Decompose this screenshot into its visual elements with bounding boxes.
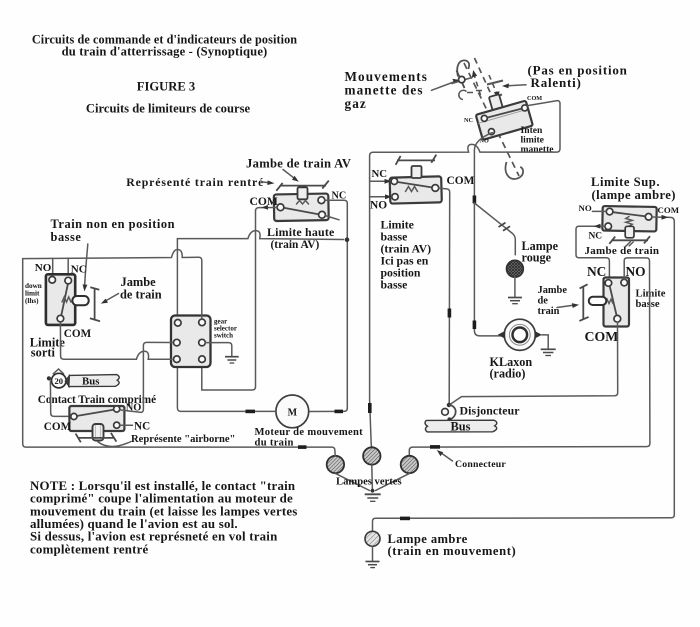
wire: S2 COM right then down to circuit breaker (439, 188, 450, 403)
wire: horizontal rail y=238.5 from gear selector to node A with hop over COM drop (177, 231, 343, 240)
connector dash on NO drop wire (upper) (473, 196, 477, 204)
S6 roller (72, 296, 88, 305)
wire: amber lamp to ground (372, 546, 374, 560)
svg-text:rouge: rouge (522, 251, 552, 265)
wire: S4 COM down then left to circuit breaker (450, 322, 617, 404)
wire: klaxon right to ground (542, 335, 548, 348)
label: KLaxon (radio) (490, 355, 533, 381)
S5 actuator bar (276, 181, 329, 191)
svg-text:Représenté train rentré: Représenté train rentré (126, 175, 264, 189)
gear selector switch SW1 (171, 316, 211, 368)
svg-text:NO: NO (579, 203, 592, 213)
svg-text:Représente "airborne": Représente "airborne" (131, 434, 235, 445)
label: Limite basse (S4) (636, 288, 666, 310)
S4 jamb bar (jambe de train) (579, 284, 588, 321)
svg-text:Lampes vertes: Lampes vertes (336, 477, 402, 488)
wire: S5 NC right then down to junction node A (309, 200, 347, 411)
svg-text:Bus: Bus (451, 420, 471, 434)
svg-text:Ralenti): Ralenti) (531, 75, 582, 90)
svg-text:sorti: sorti (31, 346, 56, 360)
label: Limite sorti (30, 335, 66, 359)
svg-text:Limite haute: Limite haute (267, 225, 334, 239)
switch S6: Limite sorti (down limit switch) (46, 274, 75, 325)
svg-text:complètement rentré: complètement rentré (30, 542, 149, 556)
S6 spring (62, 297, 71, 302)
label: Mouvements manette des gaz (345, 69, 429, 111)
leader arrow: jambe de train to bar (S6) (101, 294, 119, 304)
switch S7: Contact train comprime (69, 406, 124, 431)
svg-text:(lampe ambre): (lampe ambre) (592, 188, 676, 202)
connector dash on bottom rail (298, 445, 307, 449)
svg-text:COM: COM (64, 328, 92, 340)
wire: S3 NC left, down, right, down to S4 NC (U link) (576, 224, 609, 280)
svg-text:COM: COM (250, 195, 278, 208)
svg-text:NC: NC (71, 264, 87, 276)
wire: throttle NO terminal down (to red lamp / klaxon branch) (474, 133, 502, 336)
node: green lamp ground junction (371, 489, 375, 493)
wire: NO label lead to S3 NO (593, 210, 607, 212)
S3 spring (626, 217, 632, 227)
throttle lever arrowheads (472, 70, 477, 78)
wire: S3 COM right with arrow then down the far right side to amber lamp feed (373, 215, 675, 531)
svg-text:(lhs): (lhs) (25, 297, 39, 305)
svg-text:Circuits de limiteurs de cours: Circuits de limiteurs de course (86, 102, 251, 116)
wire: motor left to gear selector bottom-left (177, 368, 276, 412)
label: Limite basse (train AV) Ici pas en position basse (381, 218, 432, 292)
svg-text:basse: basse (381, 278, 408, 292)
svg-text:20: 20 (55, 376, 64, 386)
wire: S6 COM down then right to gear selector row3 with hop (60, 322, 172, 359)
wire: node x=369.6 stub to S2 NC with arrow (370, 179, 392, 184)
svg-text:NC: NC (134, 420, 150, 432)
lamp DS3: left green lamp (327, 456, 344, 473)
svg-text:Jambe: Jambe (538, 285, 568, 296)
svg-text:COM: COM (447, 175, 475, 187)
svg-text:NC: NC (589, 232, 603, 242)
connector dash on S2 COM drop (448, 309, 452, 318)
leader arrow from Ralenti label (502, 83, 526, 88)
switch S4: Limite basse lower-right microswitch (604, 278, 630, 327)
svg-text:Disjoncteur: Disjoncteur (460, 404, 520, 418)
fuse F1: 20A breaker bubble (47, 369, 66, 388)
S4 roller (589, 297, 607, 305)
svg-text:manette: manette (521, 144, 555, 155)
wire: node x=369.6 stub to S2 NO with arrow (370, 194, 392, 199)
svg-text:gaz: gaz (345, 96, 367, 111)
ground: red lamp (508, 298, 522, 304)
svg-text:du train d'atterrissage - (Syn: du train d'atterrissage - (Synoptique) (62, 45, 268, 59)
svg-text:NC: NC (464, 117, 473, 124)
wire: S5 COM left then down to y=390 and right to gear selector drop (202, 205, 277, 390)
svg-text:Jambe de train: Jambe de train (585, 245, 660, 257)
svg-text:Jambe de train AV: Jambe de train AV (246, 157, 351, 171)
wire: fuse node down to S7 COM (50, 381, 70, 416)
svg-text:COM: COM (527, 95, 542, 102)
S3 plunger (625, 226, 634, 238)
switch S2: Limite basse (train AV) (390, 176, 442, 203)
svg-text:Connecteur: Connecteur (455, 459, 506, 470)
svg-text:de: de (538, 296, 549, 307)
label: Moteur de mouvement du train (255, 427, 364, 448)
ground: amber lamp (366, 562, 380, 568)
ground: klaxon (541, 349, 556, 355)
motor M1: Moteur de mouvement du train (276, 395, 309, 428)
S7 plunger (93, 424, 104, 441)
bus bar B1: Bus (left) (65, 375, 119, 387)
svg-text:NO: NO (370, 200, 387, 212)
svg-text:NO: NO (35, 262, 52, 274)
S3 actuator bar (jambe de train) (609, 236, 650, 246)
leader arrow from Mouvements label to throttle handle (432, 79, 460, 91)
svg-text:Limite: Limite (636, 288, 666, 299)
svg-text:Limite Sup.: Limite Sup. (591, 175, 660, 189)
ground: green lamps (365, 494, 381, 501)
label: Lampe rouge (522, 239, 559, 265)
ground: gear selector (225, 357, 239, 363)
wire: gear selector top-left drop from rail (176, 239, 178, 319)
tick marks on red lamp diagonal (499, 223, 511, 231)
label: Lampe ambre (train en mouvement) (388, 532, 517, 558)
wire: S4 NO up and right then down far edge to bottom rail (409, 258, 650, 456)
svg-text:Bus: Bus (82, 376, 99, 388)
wire: diagonal branch to red lamp (474, 203, 515, 255)
wire: NO stub from top edge (52, 259, 54, 277)
wire: throttle COM to right edge then down and left along y=152 with hop, to node x=369.6 (370, 101, 560, 179)
lamp DS4: right green lamp (401, 456, 418, 473)
connector dash on NO drop wire (lower) (473, 321, 477, 330)
connector dash on amber lamp wire (400, 517, 410, 521)
node A: junction of NC drop and gear-up rail (345, 237, 350, 242)
svg-text:(radio): (radio) (490, 367, 526, 381)
svg-text:NC: NC (372, 168, 388, 180)
bus bar B2: Bus (right) (425, 420, 497, 432)
circuit breaker CB1: Disjoncteur (442, 403, 456, 422)
title text block (32, 33, 297, 116)
S7 T-bar (76, 433, 117, 442)
S2 plunger (412, 166, 422, 178)
svg-text:COM: COM (658, 205, 680, 215)
leader arrow to S4 jamb bar (557, 303, 579, 308)
label: gear selector switch (214, 318, 237, 340)
svg-text:de train: de train (120, 288, 162, 302)
lamp DS5: Lampe ambre (365, 531, 380, 546)
S2 actuator bar (jambe de train AV side) (396, 155, 437, 165)
leader: Train non en position basse to roller (83, 244, 88, 292)
svg-text:COM: COM (44, 421, 72, 433)
svg-text:NC: NC (587, 264, 606, 279)
svg-text:basse: basse (636, 299, 660, 310)
label: Jambe de train (S4) (538, 285, 568, 317)
label: Train non en position basse (51, 217, 176, 244)
connector dash on motor left wire (246, 410, 256, 414)
lamp DS1: Lampe rouge (507, 260, 524, 277)
wire: S7 NO up-right to x=143.4 then up to gear selector row2 (120, 342, 173, 412)
svg-text:FIGURE 3: FIGURE 3 (137, 80, 195, 94)
svg-text:basse: basse (51, 230, 82, 244)
connector dash on motor right wire (335, 410, 344, 414)
wire: gear selector mid-right to ground (205, 343, 232, 356)
leader curve: Represente airborne to plunger (98, 442, 132, 447)
leader arrow: Connecteur (437, 450, 453, 461)
wire: NC stub from top edge (67, 258, 69, 277)
switch S1: Inten limite manette (throttle limit switch, rotated) (472, 88, 533, 140)
wire: S2 NO vertical down to middle green lamp (370, 178, 372, 448)
switch S5: Limite haute (train AV) (274, 194, 339, 222)
svg-text:M: M (288, 407, 298, 418)
svg-text:COM: COM (585, 329, 619, 344)
leader arrow: rentre to actuator (263, 180, 275, 185)
S6 jamb bar (jambe de train) (90, 287, 100, 321)
label: Limite haute (train AV) (267, 225, 334, 251)
throttle lever handle pivot (452, 71, 472, 89)
S5 spring (297, 201, 309, 205)
throttle lever (dashed, gas lever) (457, 58, 523, 179)
wire: left loop top edge with NO/NC stubs and hop, then down to gear selector top-right (23, 250, 202, 320)
svg-text:(train AV): (train AV) (271, 239, 320, 251)
switch S3: Limite Sup upper microswitch (602, 206, 656, 231)
connector dash on S2 NO vertical (368, 403, 372, 413)
svg-text:(train en mouvement): (train en mouvement) (388, 544, 517, 558)
note text block (30, 479, 298, 557)
lamp DS2: middle green lamp (363, 447, 380, 464)
connector dash near Connecteur label (430, 445, 440, 449)
wires: green lamps to common ground point (335, 465, 409, 491)
label: down limit (lhs) (25, 282, 42, 305)
label: Limite Sup. (lampe ambre) (591, 175, 676, 202)
wire: red lamp down to ground (514, 277, 516, 296)
svg-text:switch: switch (214, 332, 233, 340)
label: (Pas en position Ralenti) (528, 63, 628, 91)
pin label NC (S7) with stub (120, 420, 150, 432)
label: Jambe de train (S6) (120, 275, 162, 302)
wire: left loop left edge down to bottom rail, right to left green lamp (23, 259, 336, 456)
S5 plunger (298, 187, 308, 199)
label: Inten limite manette (521, 125, 555, 155)
horn LS1: KLaxon (radio) (498, 319, 542, 350)
leader arrow: Jambe de train AV to bar (283, 170, 299, 182)
